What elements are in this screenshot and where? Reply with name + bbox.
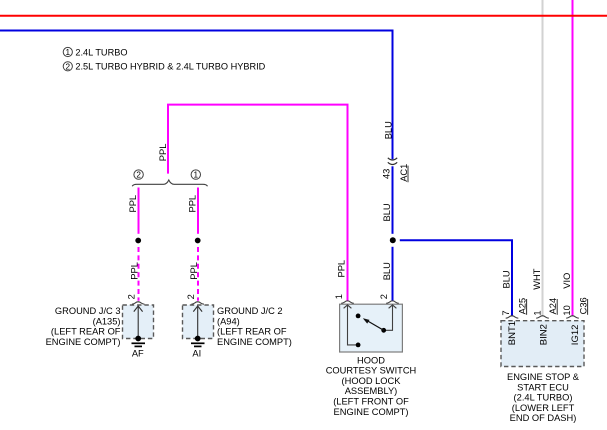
- svg-text:GROUND J/C 2: GROUND J/C 2: [217, 306, 283, 316]
- wire red power bus: [0, 15, 607, 17]
- svg-text:(HOOD LOCK: (HOOD LOCK: [342, 376, 402, 386]
- svg-text:AC1: AC1: [399, 164, 409, 182]
- pin arrow left ground: [137, 307, 139, 338]
- junction node right PPL: [195, 238, 201, 244]
- svg-text:END OF DASH): END OF DASH): [510, 413, 577, 423]
- svg-text:(LOWER LEFT: (LOWER LEFT: [512, 403, 575, 413]
- svg-text:2: 2: [379, 294, 389, 299]
- svg-text:AI: AI: [192, 348, 201, 358]
- cup pin 2 switch: [386, 301, 399, 303]
- brace splice: [132, 180, 207, 186]
- svg-text:1: 1: [334, 294, 344, 299]
- svg-text:2.5L TURBO HYBRID & 2.4L TURBO: 2.5L TURBO HYBRID & 2.4L TURBO HYBRID: [75, 62, 265, 72]
- svg-text:IG12: IG12: [570, 325, 581, 346]
- cup pin 1 switch: [341, 301, 354, 303]
- svg-text:(A94): (A94): [217, 316, 240, 326]
- svg-text:PPL: PPL: [189, 262, 199, 280]
- svg-text:BLU: BLU: [384, 121, 394, 139]
- svg-text:ENGINE COMPT): ENGINE COMPT): [46, 337, 121, 347]
- svg-text:WHT: WHT: [532, 268, 542, 289]
- svg-text:GROUND J/C 3: GROUND J/C 3: [55, 306, 121, 316]
- wire VIO vertical to ECU pin 10: [572, 0, 574, 316]
- cup ECU pin 10: [566, 316, 579, 318]
- svg-text:C36: C36: [578, 297, 588, 314]
- wire BLU junction to switch pin 2: [392, 247, 394, 301]
- svg-text:ENGINE COMPT): ENGINE COMPT): [334, 407, 409, 417]
- svg-text:BIN2: BIN2: [539, 324, 550, 345]
- wire PPL right branch solid: [197, 188, 199, 234]
- switch pin 1 internal arrow: [344, 305, 352, 308]
- switch contact dot A: [356, 314, 361, 319]
- svg-text:BNT1: BNT1: [507, 321, 518, 345]
- svg-text:PPL: PPL: [337, 260, 347, 278]
- svg-text:2.4L TURBO: 2.4L TURBO: [75, 47, 127, 57]
- svg-text:1: 1: [66, 48, 71, 57]
- svg-text:ENGINE STOP &: ENGINE STOP &: [507, 372, 580, 382]
- svg-text:A24: A24: [548, 298, 558, 315]
- svg-text:START ECU: START ECU: [517, 382, 569, 392]
- svg-text:PPL: PPL: [128, 195, 138, 213]
- junction node on BLU: [390, 237, 396, 243]
- switch lever arm: [365, 319, 384, 330]
- ground J/C 3 box (A135): [123, 305, 154, 339]
- ground J/C 2 box (A94): [183, 305, 214, 339]
- cup pin left ground: [132, 302, 145, 304]
- engine stop & start ECU box: [501, 321, 584, 367]
- svg-text:BLU: BLU: [382, 262, 392, 280]
- svg-text:43: 43: [381, 169, 391, 179]
- svg-text:PPL: PPL: [158, 144, 168, 162]
- hood courtesy switch box: [340, 304, 403, 352]
- svg-text:PPL: PPL: [130, 262, 140, 280]
- svg-text:A25: A25: [517, 298, 527, 315]
- svg-text:(LEFT REAR OF: (LEFT REAR OF: [51, 327, 121, 337]
- svg-text:ENGINE COMPT): ENGINE COMPT): [217, 337, 292, 347]
- wire WHT vertical to ECU pin 1: [542, 0, 544, 316]
- svg-text:2: 2: [126, 294, 136, 299]
- svg-text:VIO: VIO: [562, 273, 572, 289]
- switch contact dot B (pivot): [381, 328, 386, 333]
- svg-text:HOOD: HOOD: [357, 355, 385, 365]
- inline connector AC1 arcs: [388, 158, 397, 160]
- node circled 2: [134, 170, 143, 179]
- cup pin right ground: [191, 302, 204, 304]
- wire PPL right branch dashed: [197, 247, 199, 301]
- svg-text:ASSEMBLY): ASSEMBLY): [345, 386, 398, 396]
- node circled 1: [191, 170, 200, 179]
- wire PPL left branch solid: [138, 188, 140, 234]
- cup ECU pin 1: [536, 316, 549, 318]
- svg-text:COURTESY SWITCH: COURTESY SWITCH: [326, 366, 417, 376]
- wire BLU branch to ECU pin 7: [400, 240, 512, 315]
- pin arrow right ground: [197, 307, 199, 338]
- switch pin 2 internal arrow: [389, 305, 397, 308]
- node legend circled 1: [63, 47, 72, 56]
- wire BLU from left bus to inline connector AC1: [0, 31, 393, 160]
- ground symbol AI: [195, 336, 201, 342]
- svg-text:(LEFT REAR OF: (LEFT REAR OF: [217, 327, 287, 337]
- svg-text:1: 1: [532, 310, 542, 315]
- svg-text:2: 2: [186, 294, 196, 299]
- node legend circled 2: [63, 62, 72, 71]
- svg-text:(LEFT FRONT OF: (LEFT FRONT OF: [333, 397, 409, 407]
- svg-text:(A135): (A135): [93, 316, 121, 326]
- wire PPL main loop: [168, 105, 348, 301]
- wire PPL left branch dashed: [138, 247, 140, 301]
- svg-text:1: 1: [194, 171, 199, 180]
- svg-text:7: 7: [501, 310, 511, 315]
- svg-text:AF: AF: [132, 348, 144, 358]
- cup ECU pin 7: [506, 316, 519, 318]
- wire BLU below connector to junction: [392, 166, 394, 234]
- ground symbol AF: [135, 336, 141, 342]
- svg-text:BLU: BLU: [502, 270, 512, 288]
- switch contact dot C: [356, 343, 361, 348]
- svg-text:(2.4L TURBO): (2.4L TURBO): [514, 393, 573, 403]
- svg-text:PPL: PPL: [188, 195, 198, 213]
- svg-text:2: 2: [66, 62, 71, 71]
- svg-text:BLU: BLU: [382, 203, 392, 221]
- svg-text:10: 10: [562, 305, 572, 315]
- junction node left PPL: [135, 238, 141, 244]
- svg-text:2: 2: [136, 171, 141, 180]
